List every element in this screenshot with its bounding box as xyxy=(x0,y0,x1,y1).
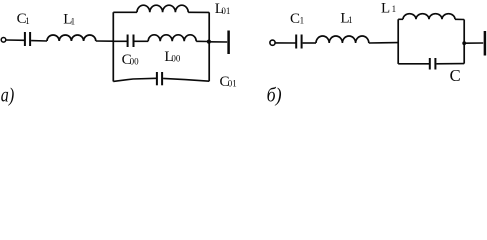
svg-text:01: 01 xyxy=(221,6,230,16)
wire xyxy=(209,41,227,43)
wire xyxy=(436,63,464,65)
electrode plate (output, circuit b) xyxy=(484,31,487,56)
node (right junction, circuit b) xyxy=(463,20,465,64)
node (right junction, circuit a) xyxy=(208,12,210,81)
svg-text:а): а) xyxy=(1,85,15,107)
wire xyxy=(275,42,295,44)
capacitor C (bottom branch, circuit b) xyxy=(429,58,431,70)
inductor L01 (top branch, circuit a) xyxy=(137,5,188,12)
svg-text:1: 1 xyxy=(71,16,76,26)
wire xyxy=(135,40,149,42)
wire xyxy=(398,18,403,20)
svg-text:1: 1 xyxy=(25,16,30,26)
svg-text:C: C xyxy=(450,66,461,85)
electrode plate (output, circuit a) xyxy=(227,31,230,55)
wire xyxy=(196,40,209,42)
wire xyxy=(96,40,113,42)
capacitor C01 (bottom branch, circuit a) xyxy=(156,72,158,85)
svg-text:C: C xyxy=(290,11,300,27)
wire xyxy=(113,40,127,42)
wire xyxy=(113,11,137,13)
node (left junction, circuit a) xyxy=(112,12,114,81)
terminal (input port, circuit b) xyxy=(270,40,275,45)
svg-text:L: L xyxy=(381,1,390,17)
wire xyxy=(398,63,429,65)
inductor L1 (circuit b) xyxy=(316,36,369,43)
wire xyxy=(303,42,316,44)
svg-text:00: 00 xyxy=(171,54,181,64)
svg-text:1: 1 xyxy=(348,15,353,25)
wire xyxy=(113,78,156,81)
svg-text:01: 01 xyxy=(228,79,237,89)
wire xyxy=(188,11,209,13)
svg-text:б): б) xyxy=(267,85,282,107)
terminal (input port, circuit a) xyxy=(1,38,6,43)
capacitor C1 (circuit b) xyxy=(295,35,297,49)
inductor L1 (circuit a) xyxy=(47,35,96,41)
svg-text:00: 00 xyxy=(130,57,140,67)
wire xyxy=(163,78,209,81)
wire xyxy=(455,18,464,20)
wire xyxy=(464,42,483,44)
wire xyxy=(6,39,24,41)
node (left junction, circuit b) xyxy=(397,19,399,64)
wire xyxy=(31,40,47,42)
svg-text:1: 1 xyxy=(300,15,305,25)
capacitor C1 (circuit a) xyxy=(24,32,26,46)
wire xyxy=(369,42,398,44)
inductor L1 (top branch, circuit b) xyxy=(403,14,455,20)
capacitor C00 (middle branch, circuit a) xyxy=(127,35,129,48)
svg-text:1: 1 xyxy=(392,4,397,14)
inductor L00 (middle branch, circuit a) xyxy=(148,35,196,42)
